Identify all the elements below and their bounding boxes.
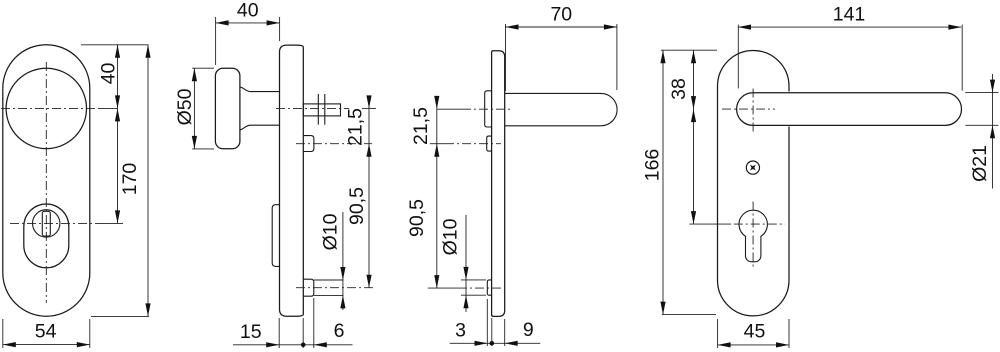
arrows 3 / 9 xyxy=(475,341,488,346)
Ø10 dim line (view 3) xyxy=(465,215,467,312)
45 dim line xyxy=(718,344,789,346)
svg-text:Ø10: Ø10 xyxy=(440,218,462,255)
plate side outline xyxy=(280,45,304,316)
handle axis vertical centerline xyxy=(752,89,754,134)
15/6 dim line xyxy=(233,344,353,346)
top extension line view 1 xyxy=(81,44,149,46)
svg-text:170: 170 xyxy=(119,163,141,196)
svg-text:15: 15 xyxy=(240,321,262,343)
dim line B (170) xyxy=(147,45,149,317)
svg-text:Ø50: Ø50 xyxy=(174,88,196,125)
arrows 40 view 2 xyxy=(216,20,229,25)
arrows 54 xyxy=(3,342,16,347)
arrows Ø21 xyxy=(990,80,995,93)
europrofile cylinder hole xyxy=(739,210,767,262)
Ø10 dim line xyxy=(342,212,344,310)
reference dot 3/9 xyxy=(490,341,495,346)
bottom boss xyxy=(303,279,314,296)
dim line A (40 / 72) xyxy=(117,45,119,224)
166 dim line xyxy=(662,50,664,314)
svg-text:90,5: 90,5 xyxy=(346,187,368,225)
arrows 70 xyxy=(506,24,519,29)
knob neck top xyxy=(240,87,280,92)
svg-text:45: 45 xyxy=(744,320,766,342)
svg-text:3: 3 xyxy=(455,320,466,342)
54 extension lines xyxy=(2,319,4,348)
166 bottom ext xyxy=(662,314,716,316)
Ø10 ext lines (view 3) xyxy=(461,279,486,281)
svg-text:40: 40 xyxy=(237,0,259,22)
boss (view 3) xyxy=(487,280,492,295)
Ø21 dim line xyxy=(992,74,994,189)
141 dim line xyxy=(738,26,961,28)
arrows 38 chained xyxy=(691,50,696,63)
svg-text:Ø10: Ø10 xyxy=(320,213,342,250)
Ø50 dim line xyxy=(193,68,195,149)
boss centerline (view 3) xyxy=(428,287,458,289)
38 dim line + chained xyxy=(693,50,695,224)
cylinder protection rose (oval) xyxy=(24,204,69,268)
38/166 top ext xyxy=(661,49,717,51)
spindle vertical line 2 xyxy=(324,94,326,125)
3/9 ext lines xyxy=(486,299,488,346)
lever grip front (stadium) xyxy=(737,93,962,126)
keyway slot xyxy=(42,211,50,236)
70 dim line xyxy=(506,26,617,28)
3/9 dim line xyxy=(450,342,541,344)
svg-text:9: 9 xyxy=(523,319,534,341)
40 ext lines (view 2) xyxy=(215,17,217,65)
arrows dim A xyxy=(115,45,120,58)
screw cross recess xyxy=(747,162,759,174)
arrows 166 xyxy=(660,50,665,63)
arrows 141 xyxy=(738,25,751,30)
svg-text:70: 70 xyxy=(550,4,572,26)
lever grip side xyxy=(505,93,617,125)
plate side outline (view 3) xyxy=(492,51,505,317)
spindle rect xyxy=(303,104,340,116)
knob horizontal centerline xyxy=(1,107,100,109)
Ø10 ext lines xyxy=(314,279,344,281)
svg-text:90,5: 90,5 xyxy=(406,199,428,237)
svg-text:54: 54 xyxy=(35,321,57,343)
cylinder bump front xyxy=(272,205,279,267)
15/6 ext lines xyxy=(278,318,280,348)
arrows 45 xyxy=(718,342,731,347)
knob face side xyxy=(215,68,240,149)
cylinder vertical centerline (view 4) xyxy=(752,202,754,269)
clip (view 3) xyxy=(487,136,492,151)
spindle vertical line 1 xyxy=(317,94,319,125)
plate outline (view 1 stadium) xyxy=(3,45,90,317)
21,5 / 90,5 dim line xyxy=(368,96,370,288)
21,5 / 90,5 dim line (view 3) xyxy=(436,96,438,288)
handle hub rect xyxy=(485,91,492,127)
arrows 15 / 6 xyxy=(266,342,279,347)
54 dim line xyxy=(3,344,90,346)
arrows dim B (170) xyxy=(145,45,150,58)
plate outline (view 4 stadium), right edge interrupted by grip xyxy=(718,51,790,316)
141 left ext xyxy=(737,25,739,89)
knob rose circle xyxy=(6,68,86,148)
reference dot 15/6 xyxy=(301,343,306,348)
clip centerline (view 3) xyxy=(430,143,445,145)
svg-text:Ø21: Ø21 xyxy=(969,145,991,182)
knob centerline (side) xyxy=(276,107,349,109)
arrows Ø50 xyxy=(192,68,197,81)
Ø21 ext lines xyxy=(965,92,998,94)
svg-text:21,5: 21,5 xyxy=(345,108,367,146)
cylinder body circle xyxy=(33,210,60,237)
40 dim line xyxy=(216,22,280,24)
svg-text:21,5: 21,5 xyxy=(410,107,432,145)
svg-text:141: 141 xyxy=(833,4,866,26)
clip centerline xyxy=(296,143,372,145)
svg-text:166: 166 xyxy=(641,149,663,182)
svg-text:40: 40 xyxy=(98,63,120,85)
handle horizontal centerline (view 4) xyxy=(722,108,775,110)
arrows 21,5 / 90,5 xyxy=(366,95,371,108)
bottom extension (170) xyxy=(91,315,149,317)
follower clip xyxy=(303,136,314,152)
boss centerline xyxy=(296,287,373,289)
cylinder horizontal centerline xyxy=(10,222,100,224)
141 right ext xyxy=(961,25,963,91)
arrows 21,5 / 90,5 view 3 xyxy=(434,96,439,109)
svg-text:38: 38 xyxy=(668,78,690,100)
70 ext lines xyxy=(505,24,507,91)
Ø50 ext lines xyxy=(192,67,214,69)
cylinder centerline ext (view 4) xyxy=(689,223,731,225)
knob neck bottom xyxy=(240,125,280,130)
screw head xyxy=(746,161,759,174)
svg-text:6: 6 xyxy=(334,320,345,342)
handle centerline (view 3) xyxy=(437,108,462,110)
arrows Ø10 view 3 xyxy=(463,267,468,280)
45 ext lines xyxy=(717,319,719,348)
arrows Ø10 view 2 xyxy=(340,267,345,280)
vertical centerline view 1 xyxy=(45,62,47,303)
